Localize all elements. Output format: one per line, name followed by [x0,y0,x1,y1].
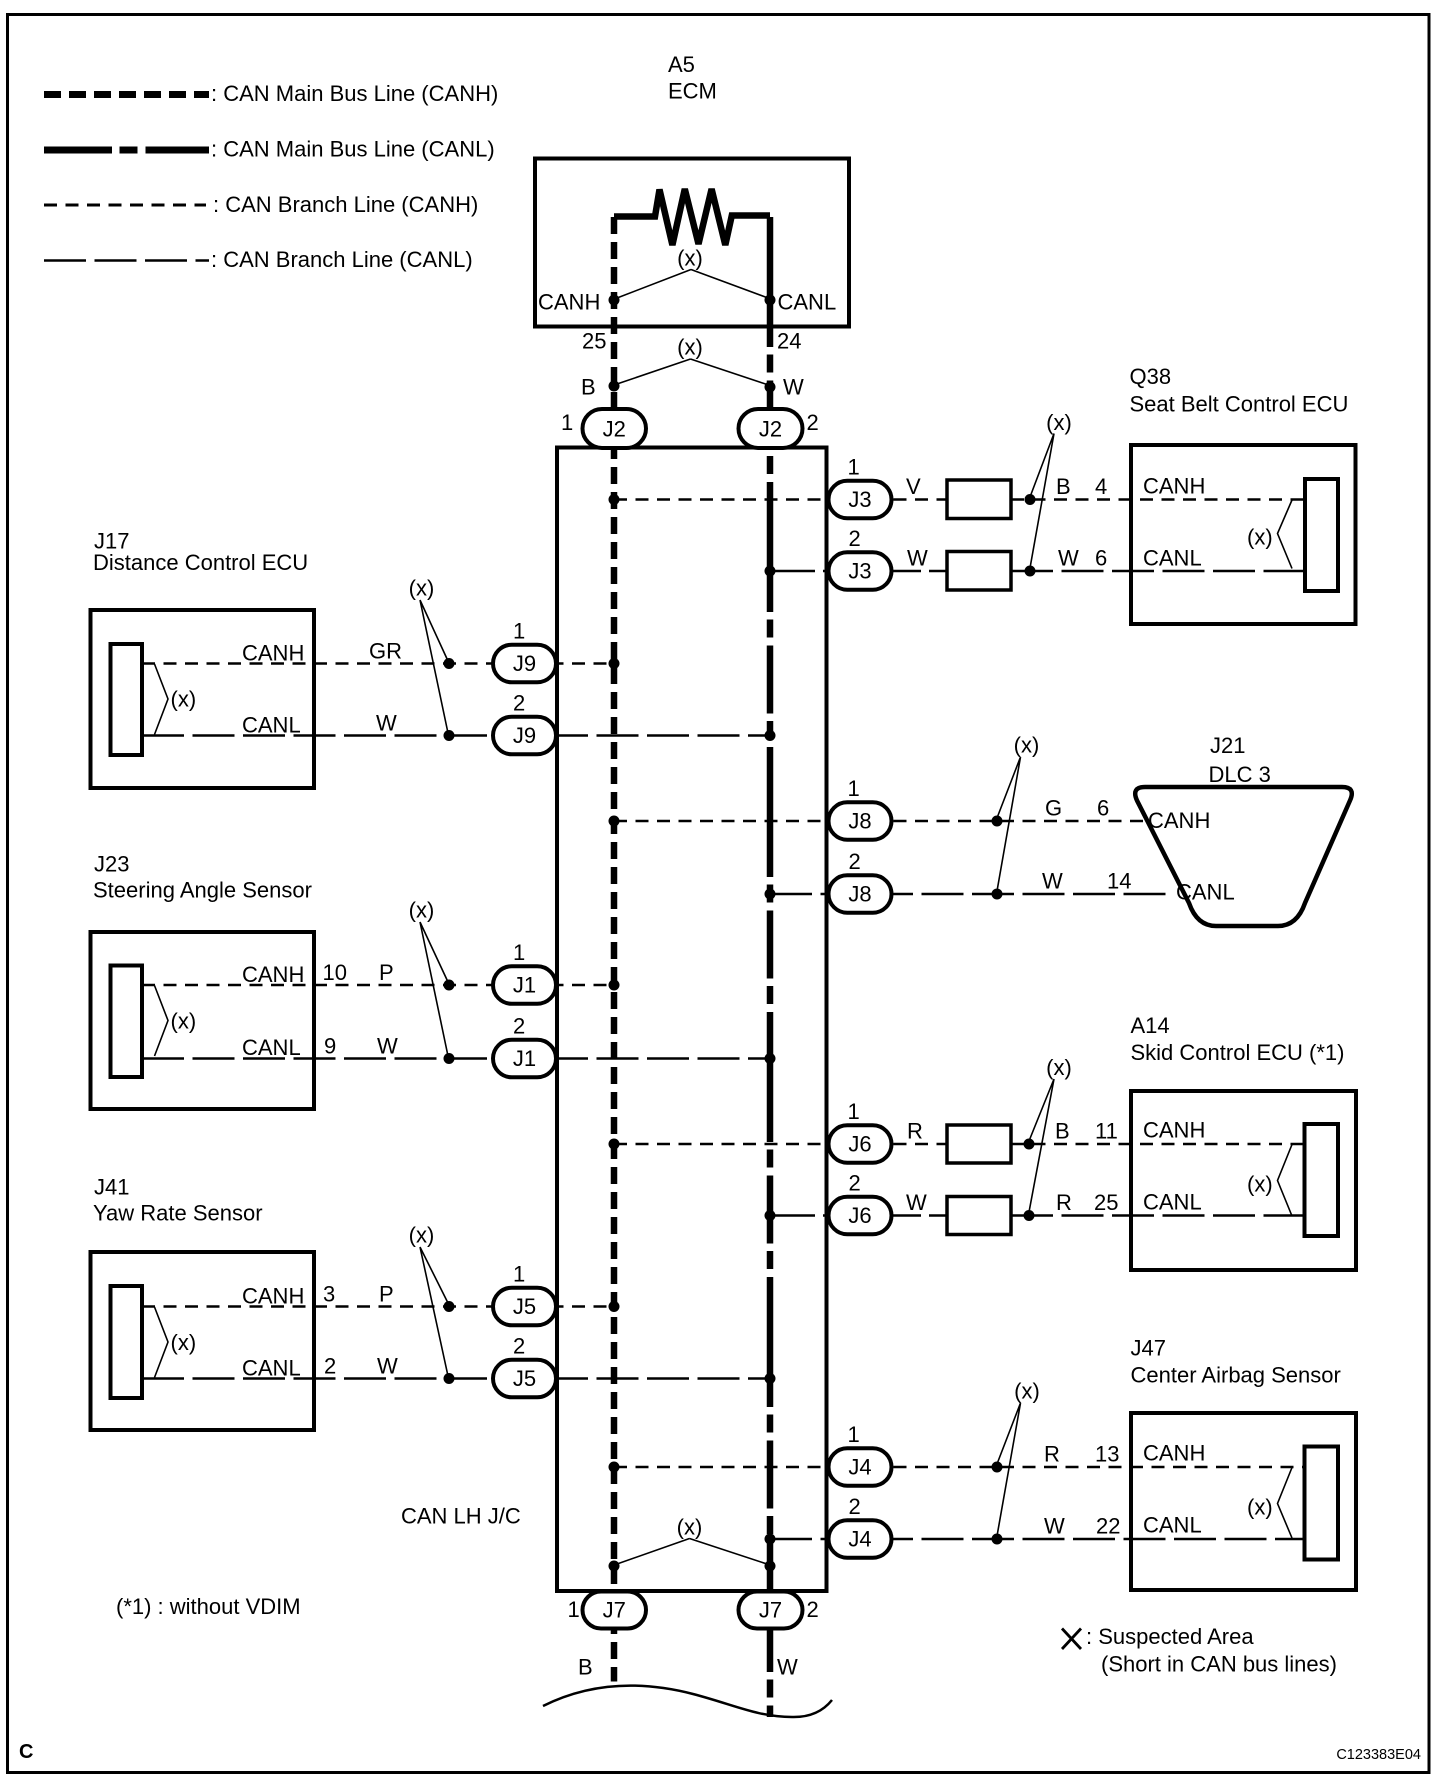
svg-text:(x): (x) [409,1223,435,1248]
svg-text:W: W [1044,1514,1065,1539]
svg-text:Seat Belt Control ECU: Seat Belt Control ECU [1130,392,1349,417]
node W above J2 [765,382,776,393]
svg-text:CANH: CANH [1143,474,1205,499]
pointer lines (x) J6 [1029,1079,1054,1212]
junction oval J1 pin1 [493,966,556,1004]
svg-text:2: 2 [513,1334,525,1359]
svg-text:(x): (x) [171,1009,197,1034]
svg-text:14: 14 [1107,869,1131,894]
svg-text:CANH: CANH [242,641,304,666]
node J1 CANL on wire [444,1053,455,1064]
svg-text:: Suspected Area: : Suspected Area [1086,1624,1254,1649]
ECU box J41 Yaw Rate Sensor [91,1252,315,1430]
svg-text:B: B [1055,1119,1070,1144]
svg-text:2: 2 [513,691,525,716]
node J4 CANH on wire [992,1462,1003,1473]
svg-text:ECM: ECM [668,79,717,104]
svg-text:1: 1 [848,1099,860,1124]
svg-text:9: 9 [324,1034,336,1059]
svg-text:V: V [906,474,921,499]
svg-text:1: 1 [848,455,860,480]
pointer lines (x) below ECM [617,359,767,385]
svg-text:P: P [379,1282,394,1307]
svg-text:CANL: CANL [1143,1513,1202,1538]
node J3 CANH on bus [609,494,620,505]
svg-text:1: 1 [848,776,860,801]
svg-text:J4: J4 [848,1455,871,1480]
junction oval J6 pin1 [829,1125,892,1163]
ECU box J23 Steering Angle Sensor [91,932,315,1109]
node J8 CANL on wire [992,889,1003,900]
wire J9 CANH branch [142,662,614,665]
legend line: CAN Main Bus Line (CANL) [44,147,209,154]
svg-text:J6: J6 [848,1203,871,1228]
svg-text:W: W [377,1354,398,1379]
svg-text:CANL: CANL [242,713,301,738]
svg-text:J4: J4 [848,1527,871,1552]
svg-text:Distance Control ECU: Distance Control ECU [93,550,308,575]
svg-text:J7: J7 [759,1598,782,1623]
svg-text:(x): (x) [1014,733,1040,758]
svg-text:C123383E04: C123383E04 [1336,1747,1421,1763]
node J5 CANH on bus [609,1301,620,1312]
svg-text:3: 3 [323,1282,335,1307]
svg-text:CAN LH J/C: CAN LH J/C [401,1504,521,1529]
suspect bracket inside A14 [1278,1145,1293,1217]
svg-text:(x): (x) [1046,410,1072,435]
wire J3 CANL branch [770,570,947,573]
svg-text:W: W [1042,869,1063,894]
pointer lines (x) J1 [420,922,448,1056]
svg-text:A5: A5 [668,52,695,77]
ECU box J47 Center Airbag Sensor [1131,1413,1356,1590]
svg-text:J8: J8 [848,882,871,907]
svg-text:R: R [907,1119,923,1144]
svg-text:: CAN Main Bus Line (CANH): : CAN Main Bus Line (CANH) [211,81,498,106]
svg-text:4: 4 [1095,474,1107,499]
svg-text:CANH: CANH [242,1284,304,1309]
junction oval J5 pin2 [493,1360,556,1398]
wire J4 CANH branch [614,1466,1305,1469]
wire J1 CANH branch [142,984,614,987]
svg-text:G: G [1045,796,1062,821]
connector rect on J6 CANL wire [947,1197,1011,1235]
junction oval J3 pin2 [829,552,892,590]
svg-text:1: 1 [513,940,525,965]
svg-text:2: 2 [849,1494,861,1519]
svg-text:Skid Control ECU (*1): Skid Control ECU (*1) [1131,1040,1345,1065]
pointer lines (x) J7 [617,1539,767,1565]
svg-text:J1: J1 [513,1046,536,1071]
wire J6 CANH branch [614,1143,947,1146]
node CANH at ECM pin [609,295,620,306]
node J9 CANL on wire [444,730,455,741]
connector J21 DLC 3 trapezoid [1135,787,1352,926]
svg-text:W: W [783,375,804,400]
svg-text:B: B [1056,474,1071,499]
node J8 CANH on wire [992,816,1003,827]
svg-text:(x): (x) [409,898,435,923]
svg-text:W: W [777,1655,798,1680]
suspect bracket inside J17 [155,664,169,735]
svg-text:1: 1 [561,410,573,435]
junction oval J8 pin2 [829,875,892,913]
svg-text:J8: J8 [848,809,871,834]
junction oval J8 pin1 [829,802,892,840]
svg-text:(x): (x) [409,576,435,601]
svg-text:: CAN Branch Line (CANH): : CAN Branch Line (CANH) [213,192,478,217]
svg-text:W: W [1058,546,1079,571]
svg-text:2: 2 [849,526,861,551]
svg-text:13: 13 [1095,1442,1119,1467]
suspect bracket inside J47 [1278,1468,1293,1539]
svg-text:(x): (x) [171,687,197,712]
junction oval J4 pin1 [829,1448,892,1486]
junction oval J6 pin2 [829,1197,892,1235]
svg-text:(x): (x) [677,246,703,271]
pointer lines (x) J9 [420,600,448,733]
node J1 CANH on wire [444,980,455,991]
svg-text:25: 25 [1094,1190,1118,1215]
svg-text:(x): (x) [1247,1495,1273,1520]
pointer lines (x) J4 [997,1403,1021,1536]
suspect bracket inside J23 [155,986,169,1057]
node J3 CANL on wire [1025,566,1036,577]
svg-text:J23: J23 [94,852,129,877]
svg-text:2: 2 [807,410,819,435]
connector pin rect inside J23 [111,966,143,1078]
svg-text:(x): (x) [677,1515,703,1540]
svg-text:Yaw Rate Sensor: Yaw Rate Sensor [93,1201,263,1226]
node J9 CANH on wire [444,658,455,669]
svg-text:(x): (x) [1247,525,1273,550]
ECM box A5 [535,159,849,327]
svg-text:W: W [907,546,928,571]
svg-text:2: 2 [513,1014,525,1039]
svg-text:J47: J47 [1131,1336,1166,1361]
svg-text:: CAN Branch Line (CANL): : CAN Branch Line (CANL) [211,247,473,272]
svg-text:R: R [1056,1190,1072,1215]
node J3 CANH on wire [1025,494,1036,505]
svg-text:: CAN Main Bus Line (CANL): : CAN Main Bus Line (CANL) [211,137,495,162]
svg-text:DLC 3: DLC 3 [1209,762,1271,787]
wave break line [543,1686,832,1717]
svg-text:CANL: CANL [778,290,837,315]
svg-text:Steering Angle Sensor: Steering Angle Sensor [93,878,312,903]
svg-text:(x): (x) [677,335,703,360]
wire J5 CANL branch [142,1377,770,1380]
svg-text:2: 2 [324,1354,336,1379]
node J6 CANL on wire [1024,1210,1035,1221]
junction oval J1 pin2 [493,1040,556,1078]
svg-text:GR: GR [369,639,402,664]
svg-text:J3: J3 [848,487,871,512]
svg-text:(x): (x) [1014,1379,1040,1404]
connector pin rect inside J41 [111,1286,143,1398]
svg-text:J1: J1 [513,973,536,998]
svg-text:C: C [19,1741,33,1763]
wire J1 CANL branch [142,1057,770,1060]
svg-text:W: W [376,711,397,736]
pointer lines (x) J3 [1030,434,1054,569]
svg-text:B: B [578,1655,593,1680]
pointer lines (x) J5 [420,1247,448,1376]
wire J8 CANL branch [770,893,1172,896]
svg-text:A14: A14 [1131,1013,1170,1038]
junction oval J7 pin2 [739,1592,803,1629]
pointer lines (x) J8 [997,757,1021,891]
ECU box J17 Distance Control ECU [91,610,315,788]
node J5 CANL on bus [765,1373,776,1384]
connector pin rect inside J47 [1305,1447,1339,1560]
svg-text:(x): (x) [1046,1055,1072,1080]
node J9 CANH on bus [609,658,620,669]
svg-text:1: 1 [568,1597,580,1622]
svg-text:J9: J9 [513,723,536,748]
svg-text:J6: J6 [848,1132,871,1157]
svg-text:CANL: CANL [242,1356,301,1381]
node J4 CANL on wire [992,1534,1003,1545]
junction oval J4 pin2 [829,1520,892,1558]
svg-text:CANL: CANL [1176,880,1235,905]
node CANL at ECM pin [765,295,776,306]
svg-text:W: W [906,1190,927,1215]
svg-text:2: 2 [849,1171,861,1196]
ECU box Q38 Seat Belt Control ECU [1131,445,1356,624]
node J6 CANH on bus [609,1139,620,1150]
pointer lines (x) ECM [617,270,768,299]
legend line: CAN Branch Line (CANL) [44,259,209,262]
svg-text:10: 10 [323,960,347,985]
svg-text:J2: J2 [759,417,782,442]
svg-text:1: 1 [513,1262,525,1287]
svg-text:J3: J3 [848,559,871,584]
svg-text:25: 25 [582,329,606,354]
node B above J2 [609,381,620,392]
node J4 CANH on bus [609,1462,620,1473]
connector pin rect inside A14 [1305,1124,1339,1236]
node J7 CANL bottom [765,1561,776,1572]
svg-text:(Short in CAN bus lines): (Short in CAN bus lines) [1101,1652,1337,1677]
svg-text:J5: J5 [513,1294,536,1319]
svg-text:2: 2 [849,849,861,874]
wire J8 CANH branch [614,820,1146,823]
svg-text:W: W [377,1034,398,1059]
node J8 CANH on bus [609,816,620,827]
svg-text:1: 1 [513,619,525,644]
node J6 CANH on wire [1024,1139,1035,1150]
connector rect on J3 CANL wire [947,552,1011,591]
svg-text:CANL: CANL [242,1035,301,1060]
node J9 CANL on bus [765,730,776,741]
junction oval J7 pin1 [583,1592,647,1629]
svg-text:(*1) : without VDIM: (*1) : without VDIM [116,1594,301,1619]
svg-text:Q38: Q38 [1130,364,1172,389]
svg-text:J21: J21 [1210,733,1245,758]
svg-text:CANH: CANH [1148,808,1210,833]
ECU box A14 Skid Control ECU [1131,1091,1356,1270]
X suspected area symbol [1062,1629,1081,1650]
connector rect on J6 CANH wire [947,1125,1011,1163]
node J4 CANL on bus [765,1534,776,1545]
junction oval J5 pin1 [493,1288,556,1326]
node J5 CANL on wire [444,1373,455,1384]
junction connector box CAN LH J/C [557,448,827,1592]
junction oval J2 pin1 [583,409,647,448]
legend line: CAN Branch Line (CANH) [44,204,206,207]
node J3 CANL on bus [765,566,776,577]
svg-text:11: 11 [1095,1119,1118,1144]
junction oval J2 pin2 [739,409,803,448]
svg-text:1: 1 [848,1422,860,1447]
node J8 CANL on bus [765,889,776,900]
svg-text:24: 24 [777,329,801,354]
svg-text:6: 6 [1095,546,1107,571]
wire J5 CANH branch [142,1305,614,1308]
svg-text:Center Airbag Sensor: Center Airbag Sensor [1131,1363,1341,1388]
svg-text:B: B [581,375,596,400]
node J7 CANH bottom [609,1561,620,1572]
svg-text:2: 2 [807,1597,819,1622]
resistor inside ECM [614,189,770,245]
connector pin rect inside Q38 [1305,479,1338,591]
svg-text:J41: J41 [94,1175,129,1200]
node J5 CANH on wire [444,1301,455,1312]
svg-text:P: P [379,960,394,985]
junction oval J9 pin2 [493,717,556,755]
suspect bracket inside J41 [155,1307,169,1378]
wire CAN main bus CANL vertical (W) [767,217,774,1717]
svg-text:CANH: CANH [1143,1118,1205,1143]
svg-text:CANL: CANL [1143,546,1202,571]
junction oval J9 pin1 [493,645,556,683]
svg-text:J9: J9 [513,651,536,676]
svg-text:J2: J2 [603,417,626,442]
node J1 CANH on bus [609,980,620,991]
wire J4 CANL branch [770,1538,1305,1541]
wire J6 CANL branch [770,1214,947,1217]
node J6 CANL on bus [765,1210,776,1221]
svg-text:CANH: CANH [538,290,600,315]
svg-text:CANH: CANH [242,962,304,987]
suspect bracket inside Q38 [1278,500,1293,569]
wire J3 CANH branch [614,498,947,501]
svg-text:J5: J5 [513,1366,536,1391]
junction oval J3 pin1 [829,481,892,519]
connector rect on J3 CANH wire [947,480,1011,519]
svg-text:CANL: CANL [1143,1190,1202,1215]
node J1 CANL on bus [765,1053,776,1064]
legend line: CAN Main Bus Line (CANH) [44,91,209,98]
svg-text:R: R [1044,1442,1060,1467]
svg-text:CANH: CANH [1143,1441,1205,1466]
connector pin rect inside J17 [111,644,143,755]
wire J9 CANL branch [142,734,770,737]
svg-text:J7: J7 [603,1598,626,1623]
wire CAN main bus CANH vertical (B) [611,217,618,1682]
svg-text:(x): (x) [1247,1172,1273,1197]
svg-text:6: 6 [1097,796,1109,821]
svg-text:(x): (x) [171,1330,197,1355]
svg-text:22: 22 [1096,1514,1120,1539]
